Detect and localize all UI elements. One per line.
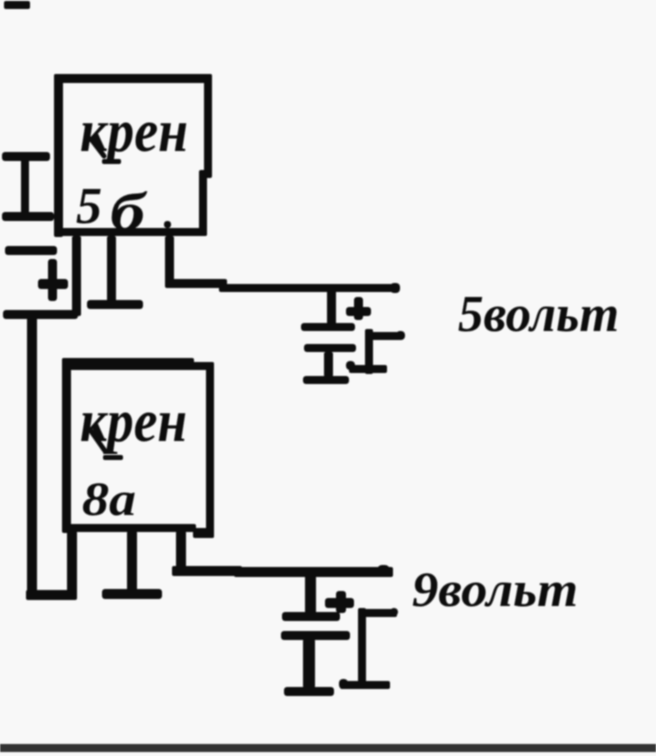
capacitor C5 plus sign horizontal xyxy=(325,598,354,608)
capacitor C3 lead from wire xyxy=(327,288,336,327)
capacitor C4 bottom bar xyxy=(349,365,387,373)
capacitor C6 left plate (vertical) xyxy=(358,608,366,686)
node dot end of C4 top lead xyxy=(396,331,405,340)
capacitor C5 top plate xyxy=(282,612,340,621)
capacitor C4 left plate (vertical) xyxy=(365,329,373,374)
ground bar under C5 xyxy=(284,687,334,696)
svg-text:крен: крен xyxy=(80,388,187,454)
wire 9V segment B xyxy=(234,567,393,577)
stray dot near б xyxy=(164,221,171,228)
node dot left end of C4 bottom bar xyxy=(346,361,355,370)
regulator U1 крен 5б box left edge xyxy=(54,74,63,237)
capacitor C4 top lead to right xyxy=(368,332,401,340)
wire output segment B to 5V node xyxy=(219,284,398,292)
capacitor C2 plus sign horizontal xyxy=(38,279,68,289)
node dot left end of C6 bottom bar xyxy=(339,679,348,689)
wire long vertical from C2 to bottom rail xyxy=(27,312,37,600)
regulator U1 box top edge xyxy=(54,74,212,83)
svg-text:б: б xyxy=(110,182,148,242)
wire U2 input pin xyxy=(67,531,77,597)
capacitor C2 top plate xyxy=(5,246,57,255)
scan artifact bottom line xyxy=(0,744,656,752)
capacitor C5 plus sign vertical xyxy=(336,591,346,613)
scan artifact mark top-left xyxy=(4,1,30,9)
capacitor C5 bottom plate xyxy=(281,631,350,640)
ground bar under C3 xyxy=(303,376,349,384)
wire output segment A xyxy=(165,279,227,288)
wire U1 input pin (left edge extension) xyxy=(72,236,81,316)
capacitor C6 top lead to right xyxy=(360,609,397,617)
regulator U2 bottom-right jut xyxy=(193,528,214,538)
regulator U1 box right edge upper xyxy=(204,74,212,178)
node dot end of 5V wire xyxy=(390,283,400,293)
ground bar under U1 middle pin xyxy=(87,300,143,309)
capacitor C3 plus sign horizontal xyxy=(346,307,371,316)
wire 9V segment A xyxy=(172,566,242,576)
capacitor C2 plus sign vertical xyxy=(48,259,57,301)
regulator U2 box bottom edge xyxy=(62,524,196,532)
capacitor C2 bottom plate xyxy=(3,310,78,319)
svg-text:8а: 8а xyxy=(82,473,136,526)
capacitor C5 lower lead xyxy=(303,639,315,688)
wire U1 middle pin xyxy=(107,236,116,302)
capacitor C3 top plate xyxy=(301,323,355,331)
regulator U1 box right edge lower xyxy=(199,170,207,236)
svg-text:5вольт: 5вольт xyxy=(458,286,619,343)
wire U2 middle pin xyxy=(127,531,137,592)
capacitor C1 top plate xyxy=(2,152,50,161)
capacitor C5 lead from wire xyxy=(305,575,316,617)
capacitor C1 bottom plate xyxy=(2,212,54,221)
wire bottom-left rail xyxy=(26,590,77,600)
regulator U2 box top edge xyxy=(62,358,194,370)
label flourish under кр (U1) xyxy=(91,139,104,156)
regulator U2 top-right notch xyxy=(190,362,214,370)
capacitor C1 lead xyxy=(21,155,29,217)
capacitor C6 bottom bar xyxy=(340,681,390,689)
wire U2 output pin xyxy=(176,531,186,576)
capacitor C3 plus sign vertical xyxy=(354,297,363,320)
capacitor C3 lower lead xyxy=(324,352,333,377)
label flourish under кр (U2) xyxy=(91,431,105,451)
regulator U2 крен 8а box left edge xyxy=(62,358,71,533)
regulator U1 box bottom edge xyxy=(54,228,207,236)
wire U1 output pin xyxy=(165,236,174,285)
svg-text:крен: крен xyxy=(80,98,188,164)
svg-text:5: 5 xyxy=(76,178,102,235)
node dot end of 9V wire xyxy=(377,565,390,577)
regulator U2 box right edge xyxy=(206,362,214,538)
node dot right end of C6 top lead xyxy=(390,608,398,616)
svg-text:9вольт: 9вольт xyxy=(412,561,578,617)
capacitor C3 bottom plate xyxy=(304,344,356,352)
ground bar under U2 middle pin xyxy=(102,589,162,599)
